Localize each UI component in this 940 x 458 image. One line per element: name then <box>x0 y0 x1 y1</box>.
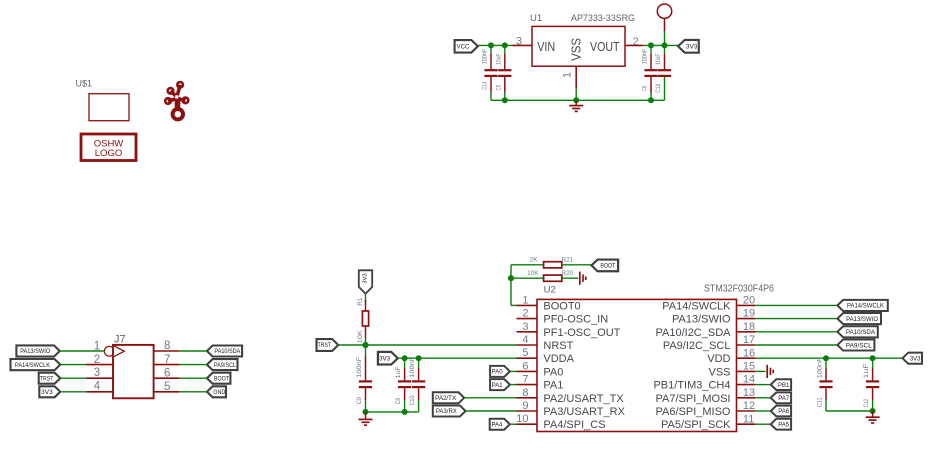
capacitor C14 bottom lead <box>490 77 492 100</box>
junction rail C12 <box>870 408 876 414</box>
svg-text:J7: J7 <box>114 334 126 346</box>
J7 pin 5 stub <box>153 391 179 393</box>
capacitor C12 <box>863 363 879 407</box>
svg-text:R1: R1 <box>357 297 364 306</box>
net flag PA10/SDA (J7) <box>207 346 242 357</box>
U2 pin 4 stub <box>517 344 538 346</box>
svg-text:PB1: PB1 <box>778 383 790 389</box>
capacitor C11 <box>817 357 833 407</box>
svg-text:PF1-OSC_OUT: PF1-OSC_OUT <box>543 327 620 339</box>
wire BOOT0 to pin 1 <box>511 304 517 306</box>
op-amp U1 body <box>532 26 625 66</box>
svg-text:7: 7 <box>522 374 528 386</box>
svg-text:10uF: 10uF <box>495 53 502 65</box>
wire VSS stub to gnd <box>755 370 765 372</box>
svg-text:PF0-OSC_IN: PF0-OSC_IN <box>543 314 608 326</box>
svg-text:8: 8 <box>522 387 528 399</box>
svg-text:PA5/SPI_SCK: PA5/SPI_SCK <box>661 419 731 431</box>
wire U1 pin1 to rail <box>575 88 577 100</box>
svg-text:100nF: 100nF <box>409 356 416 377</box>
svg-text:VDDA: VDDA <box>543 353 574 365</box>
svg-text:100nF: 100nF <box>482 49 489 65</box>
svg-text:3: 3 <box>94 367 100 379</box>
svg-text:2: 2 <box>94 354 100 366</box>
MCU U2 body <box>537 299 737 431</box>
svg-text:3V3: 3V3 <box>41 389 53 396</box>
net flag TRST (NRST) <box>317 339 339 351</box>
wire R20 to ground <box>562 277 578 279</box>
capacitor C11 top lead <box>825 358 827 380</box>
net flag PA4 <box>490 419 510 430</box>
wire pin 19 to PA13/SWIO <box>755 318 837 320</box>
net flag PA1 <box>490 379 510 390</box>
svg-text:BOOT: BOOT <box>214 375 229 382</box>
capacitor C10 <box>409 356 425 405</box>
connector J7 body <box>113 345 154 398</box>
svg-text:10uF: 10uF <box>655 53 662 65</box>
capacitor C8 top lead <box>404 358 406 380</box>
svg-text:16: 16 <box>743 347 755 359</box>
svg-text:7: 7 <box>164 354 170 366</box>
ground symbol below U1 <box>569 100 583 111</box>
net flag GND (J7) <box>207 386 226 397</box>
svg-text:TRST: TRST <box>40 375 54 382</box>
svg-text:PA3/USART_RX: PA3/USART_RX <box>543 406 625 418</box>
svg-text:C18: C18 <box>655 83 662 92</box>
wire pin 14 to PB1 <box>755 384 770 386</box>
ground symbol (VSS, rotated) <box>767 365 773 378</box>
wire bottom rail right <box>576 99 664 101</box>
junction C12 top <box>870 355 876 361</box>
svg-text:C8: C8 <box>395 397 402 404</box>
svg-text:3: 3 <box>516 36 522 48</box>
svg-text:10: 10 <box>516 413 528 425</box>
svg-text:STM32F030F4P6: STM32F030F4P6 <box>704 283 774 294</box>
svg-text:GND: GND <box>213 389 225 396</box>
svg-text:1: 1 <box>562 72 574 78</box>
wire pin 7 to PA9/SCL <box>179 364 207 366</box>
svg-text:3: 3 <box>522 321 528 333</box>
svg-text:3V3: 3V3 <box>363 273 369 283</box>
capacitor C10 bottom lead <box>418 388 420 412</box>
svg-text:15: 15 <box>743 361 755 373</box>
svg-text:VSS: VSS <box>708 366 730 378</box>
svg-text:PB1/TIM3_CH4: PB1/TIM3_CH4 <box>653 380 730 392</box>
resistor R20 <box>544 275 562 281</box>
svg-text:PA6/SPI_MISO: PA6/SPI_MISO <box>656 406 731 418</box>
capacitor C8 <box>395 366 411 404</box>
svg-text:PA10/I2C_SDA: PA10/I2C_SDA <box>655 327 731 339</box>
svg-text:PA1: PA1 <box>543 380 563 392</box>
net flag PA14/SWCLK <box>11 359 61 370</box>
svg-text:LOGO: LOGO <box>95 148 122 159</box>
U2 pin 15 stub <box>737 370 756 372</box>
resistor R1 bottom lead <box>365 326 367 339</box>
wire BOOT0 vertical <box>510 265 512 306</box>
svg-text:20: 20 <box>743 295 755 307</box>
J7 pin 2 stub <box>87 364 113 366</box>
svg-text:PA14/SWCLK: PA14/SWCLK <box>662 300 731 312</box>
wire TRST to pin3 <box>60 377 86 379</box>
capacitor C18 riser <box>664 77 666 100</box>
wire pin 5 to GND <box>179 391 207 393</box>
svg-text:PA14/SWCLK: PA14/SWCLK <box>15 362 51 369</box>
svg-text:1: 1 <box>522 294 528 306</box>
capacitor C9 <box>356 356 372 404</box>
U2 pin 5 stub <box>517 357 538 359</box>
wire pin 20 to PA14/SWCLK <box>755 304 837 306</box>
J7 pin 4 stub <box>87 391 113 393</box>
svg-text:PA0: PA0 <box>543 366 563 378</box>
capacitor C6 <box>642 49 658 92</box>
J7 pin1 marker arrow <box>114 346 124 357</box>
wire R1 to NRST <box>365 339 367 346</box>
OSHW symbol frame rectangle <box>89 94 129 121</box>
svg-text:PA9/SCL: PA9/SCL <box>214 362 236 369</box>
resistor R20 left wire <box>511 277 544 279</box>
svg-text:VSS: VSS <box>569 38 584 61</box>
resistor R1 <box>362 311 368 326</box>
svg-text:PA4/SPI_CS: PA4/SPI_CS <box>543 419 605 431</box>
OSHW LOGO labelled box <box>81 134 136 161</box>
wire VDD to 3V3 <box>755 357 903 359</box>
capacitor C8 bottom lead <box>404 388 406 412</box>
svg-text:5: 5 <box>522 347 528 359</box>
ground symbol (R20, rotated) <box>580 272 586 285</box>
U2 pin 20 stub <box>737 304 756 306</box>
net flag TRST (J7) <box>39 373 61 384</box>
junction C6 bottom <box>648 97 654 103</box>
net flag PA9/SCL (J7) <box>207 359 238 370</box>
svg-text:C10: C10 <box>409 395 416 405</box>
wire PA13/SWIO to pin1 <box>60 350 105 352</box>
U1 pin 3 stub <box>512 44 532 46</box>
svg-text:PA3/RX: PA3/RX <box>436 409 457 415</box>
supply flag VCC <box>455 40 478 53</box>
svg-text:C12: C12 <box>863 398 870 407</box>
U2 pin 12 stub <box>737 410 756 412</box>
capacitor C6 top lead <box>650 45 652 69</box>
svg-text:8: 8 <box>164 340 170 352</box>
J7 pin 6 stub <box>153 377 179 379</box>
supply flag 3V3 (VDD) <box>903 353 923 364</box>
ground symbol (right rail) <box>866 411 880 423</box>
svg-text:100nF: 100nF <box>356 356 363 377</box>
wire PA1 to pin 7 <box>510 384 517 386</box>
svg-text:VIN: VIN <box>537 39 555 54</box>
wire pin 6 to BOOT <box>179 377 207 379</box>
svg-text:6: 6 <box>164 367 170 379</box>
capacitor C18 top lead <box>664 45 666 69</box>
wire pin 12 to PA6 <box>755 410 770 412</box>
svg-text:PA7/SPI_MOSI: PA7/SPI_MOSI <box>656 393 731 405</box>
svg-text:PA9/I2C_SCL: PA9/I2C_SCL <box>663 340 731 352</box>
wire PA0 to pin 6 <box>510 370 517 372</box>
ground symbol (left rail) <box>359 412 373 425</box>
net flag PA2/TX <box>433 392 464 403</box>
svg-text:C14: C14 <box>482 81 489 89</box>
open terminal circle <box>657 4 671 18</box>
svg-text:C9: C9 <box>356 396 363 404</box>
svg-text:2K: 2K <box>530 257 539 264</box>
wire PA3/RX to pin 9 <box>466 410 517 412</box>
J7 pin1 marker circle <box>104 346 114 356</box>
junction at ground <box>573 97 579 103</box>
net flag PA14/SWCLK (right) <box>837 300 887 311</box>
net flag PA6 <box>771 406 791 417</box>
svg-text:PA6: PA6 <box>778 409 790 415</box>
capacitor C12 top lead <box>872 358 874 380</box>
svg-text:2: 2 <box>633 36 639 48</box>
svg-text:3V3: 3V3 <box>910 356 921 362</box>
wire pin 8 to PA10/SDA <box>179 350 207 352</box>
net flag PA7 <box>771 392 791 403</box>
junction C11 top <box>823 355 829 361</box>
net flag PA13/SWIO <box>16 345 59 356</box>
supply flag 3V3 (regulator) <box>678 40 699 53</box>
svg-text:U$1: U$1 <box>76 79 93 89</box>
net flag PA0 <box>490 366 510 377</box>
U2 pin 19 stub <box>737 318 756 320</box>
svg-text:PA14/SWCLK: PA14/SWCLK <box>847 303 885 310</box>
svg-text:3V3: 3V3 <box>686 44 698 51</box>
net flag BOOT (J7) <box>207 373 231 384</box>
capacitor C6 bottom lead <box>650 77 652 100</box>
svg-text:PA2/TX: PA2/TX <box>435 396 456 402</box>
svg-text:100nF: 100nF <box>817 357 824 378</box>
U2 pin 7 stub <box>517 384 538 386</box>
wire ground rail (left) <box>366 411 419 413</box>
net flag PA9/SCL (right) <box>837 339 874 350</box>
net flag PA5 <box>771 419 791 430</box>
resistor R21 left wire <box>511 264 544 266</box>
U2 pin 9 stub <box>517 410 538 412</box>
svg-text:4: 4 <box>522 334 528 346</box>
net flag PA3/RX <box>433 406 466 417</box>
svg-text:PA13/SWIO: PA13/SWIO <box>20 348 50 355</box>
wire VOUT to 3V3 <box>643 44 680 46</box>
U2 pin 8 stub <box>517 397 538 399</box>
wire TRST to NRST pin <box>338 344 516 346</box>
svg-text:5: 5 <box>164 381 170 393</box>
net flag PB1 <box>771 379 791 390</box>
junction NRST/R1/C9 <box>362 342 368 348</box>
capacitor C11 bottom lead <box>825 388 827 411</box>
U2 pin 2 stub <box>517 318 538 320</box>
wire PA2/TX to pin 8 <box>464 397 516 399</box>
svg-text:11: 11 <box>743 413 754 425</box>
U2 pin 3 stub <box>517 331 538 333</box>
wire 3V3 to VDDA <box>398 357 517 359</box>
junction C5 bottom <box>502 97 508 103</box>
svg-text:VCC: VCC <box>457 44 470 51</box>
svg-text:17: 17 <box>743 334 755 346</box>
capacitor C5 bottom lead <box>504 77 506 100</box>
svg-text:PA10/SDA: PA10/SDA <box>214 348 241 355</box>
supply flag 3V3 (VDDA) <box>378 352 398 365</box>
U2 pin 17 stub <box>737 344 756 346</box>
svg-text:3V3: 3V3 <box>379 355 391 362</box>
svg-text:2: 2 <box>522 308 528 320</box>
capacitor C10 top lead <box>418 358 420 380</box>
svg-text:BOOT: BOOT <box>600 263 615 270</box>
junction C6 top <box>648 42 654 48</box>
capacitor C5 <box>495 53 511 90</box>
svg-text:19: 19 <box>743 308 755 320</box>
U2 pin 10 stub <box>517 423 538 425</box>
wire PA4 to pin 10 <box>510 423 517 425</box>
U1 pin 2 stub <box>625 44 643 46</box>
capacitor C14 <box>482 49 498 90</box>
net flag BOOT (pullup) <box>592 260 619 272</box>
svg-text:13: 13 <box>743 387 755 399</box>
svg-text:PA13/SWIO: PA13/SWIO <box>846 316 878 323</box>
J7 pin 3 stub <box>87 377 113 379</box>
wire pin 17 to PA9/SCL <box>755 344 837 346</box>
svg-text:PA1: PA1 <box>492 383 504 389</box>
capacitor C18 <box>655 53 671 92</box>
U2 pin 11 stub <box>737 423 756 425</box>
junction C10 top <box>416 355 422 361</box>
svg-text:10K: 10K <box>357 329 364 343</box>
wire pin 18 to PA10/SDA <box>755 331 837 333</box>
svg-text:VOUT: VOUT <box>590 39 620 54</box>
wire VCC to VIN <box>478 44 512 46</box>
supply flag 3V3 (J7) <box>39 386 60 397</box>
svg-text:PA13/SWIO: PA13/SWIO <box>672 314 731 326</box>
U1 pin 1 stub <box>575 66 577 88</box>
svg-text:12: 12 <box>743 400 755 412</box>
net flag PA13/SWIO (right) <box>837 313 881 324</box>
svg-text:R21: R21 <box>562 257 574 264</box>
U2 pin 6 stub <box>517 370 538 372</box>
svg-text:U2: U2 <box>544 285 556 296</box>
svg-text:100nF: 100nF <box>642 49 649 65</box>
svg-text:18: 18 <box>743 321 755 333</box>
resistor R1 top lead <box>365 300 367 311</box>
OSHW logo mark <box>165 82 188 119</box>
wire PA14/SWCLK to pin2 <box>60 364 86 366</box>
junction at C14 top <box>488 42 494 48</box>
svg-text:C5: C5 <box>495 85 502 91</box>
capacitor C12 bottom lead <box>872 388 874 411</box>
svg-text:9: 9 <box>522 400 528 412</box>
junction BOOT0 net <box>508 275 514 281</box>
wire terminal to VOUT net <box>664 31 666 45</box>
junction rail C8 <box>402 409 408 415</box>
resistor R21 <box>544 262 562 268</box>
junction rail C9 <box>363 409 369 415</box>
svg-text:PA10/SDA: PA10/SDA <box>846 329 876 336</box>
supply flag 3V3 (NRST pullup, rotated) <box>359 270 372 294</box>
wire pin 13 to PA7 <box>755 397 770 399</box>
svg-text:14: 14 <box>743 374 755 386</box>
svg-text:PA0: PA0 <box>492 370 504 376</box>
svg-text:PA9/SCL: PA9/SCL <box>846 342 873 349</box>
svg-text:PA5: PA5 <box>778 422 790 428</box>
svg-text:C11: C11 <box>817 397 824 407</box>
wire pin 11 to PA5 <box>755 423 770 425</box>
svg-text:PA7: PA7 <box>778 396 790 402</box>
svg-text:U1: U1 <box>530 13 542 24</box>
net flag PA10/SDA (right) <box>837 326 877 337</box>
svg-text:4: 4 <box>94 380 101 392</box>
U2 pin 1 stub <box>517 304 538 306</box>
svg-text:PA4: PA4 <box>491 422 503 428</box>
capacitor C9 bottom lead <box>365 388 367 412</box>
junction C8 top <box>402 355 408 361</box>
terminal stub <box>664 18 666 31</box>
U2 pin 14 stub <box>737 384 756 386</box>
U2 pin 16 stub <box>737 357 756 359</box>
wire bottom rail left <box>491 99 576 101</box>
wire ground rail (right) <box>826 410 873 412</box>
svg-text:C6: C6 <box>642 85 649 91</box>
junction at C5 top <box>502 42 508 48</box>
svg-text:R20: R20 <box>562 270 574 277</box>
U2 pin 13 stub <box>737 397 756 399</box>
svg-text:VDD: VDD <box>707 353 730 365</box>
capacitor C5 top lead <box>504 45 506 69</box>
svg-text:10K: 10K <box>527 270 539 277</box>
svg-text:1uF: 1uF <box>395 366 402 378</box>
J7 pin 8 stub <box>153 350 179 352</box>
wire 3V3 to R1 <box>365 294 367 303</box>
svg-text:NRST: NRST <box>543 340 573 352</box>
svg-text:BOOT0: BOOT0 <box>543 300 580 312</box>
svg-text:PA2/USART_TX: PA2/USART_TX <box>543 393 624 405</box>
svg-text:6: 6 <box>522 360 528 372</box>
svg-text:TRST: TRST <box>318 342 332 349</box>
svg-text:1uF: 1uF <box>863 363 870 378</box>
svg-text:AP7333-33SRG: AP7333-33SRG <box>571 13 635 24</box>
capacitor C9 top lead <box>365 345 367 380</box>
U2 pin 18 stub <box>737 331 756 333</box>
wire 3V3 to pin4 <box>60 391 86 393</box>
capacitor C14 top lead <box>490 45 492 69</box>
wire R21 to BOOT flag <box>562 264 592 266</box>
junction C18 top <box>662 42 668 48</box>
J7 pin 7 stub <box>153 364 179 366</box>
